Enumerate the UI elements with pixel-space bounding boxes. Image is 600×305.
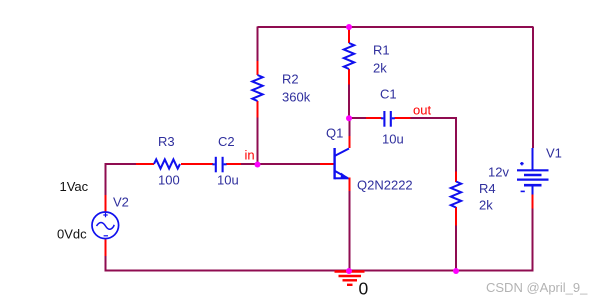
svg-text:360k: 360k xyxy=(282,90,311,105)
svg-text:10u: 10u xyxy=(217,173,239,188)
svg-text:2k: 2k xyxy=(479,198,493,213)
svg-text:R3: R3 xyxy=(158,134,175,149)
svg-text:0: 0 xyxy=(359,278,369,298)
svg-text:V1: V1 xyxy=(546,146,562,161)
svg-text:1Vac: 1Vac xyxy=(60,179,89,194)
svg-text:V2: V2 xyxy=(113,195,129,210)
svg-text:0Vdc: 0Vdc xyxy=(57,227,87,242)
svg-text:100: 100 xyxy=(158,173,180,188)
svg-text:12v: 12v xyxy=(488,165,509,180)
svg-text:R1: R1 xyxy=(373,43,390,58)
svg-text:CSDN @April_9_: CSDN @April_9_ xyxy=(486,280,588,295)
svg-text:C1: C1 xyxy=(380,87,397,102)
svg-text:out: out xyxy=(413,103,431,118)
svg-text:10u: 10u xyxy=(382,132,404,147)
svg-text:2k: 2k xyxy=(373,61,387,76)
svg-text:Q2N2222: Q2N2222 xyxy=(357,178,413,193)
svg-text:in: in xyxy=(245,148,255,163)
svg-text:Q1: Q1 xyxy=(326,126,343,141)
svg-text:C2: C2 xyxy=(218,134,235,149)
svg-text:R4: R4 xyxy=(479,181,496,196)
svg-text:R2: R2 xyxy=(282,72,299,87)
